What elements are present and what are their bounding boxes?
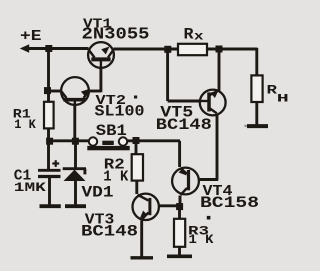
- svg-text:1MK: 1MK: [14, 181, 47, 195]
- svg-text:2N3055: 2N3055: [82, 24, 150, 43]
- svg-text:BC148: BC148: [156, 116, 212, 134]
- svg-text:SL100: SL100: [95, 102, 145, 120]
- svg-text:VD1: VD1: [82, 183, 114, 201]
- svg-text:x: x: [194, 29, 204, 43]
- svg-text:H: H: [277, 93, 289, 105]
- svg-text:R: R: [184, 26, 194, 44]
- svg-text:+E: +E: [20, 28, 42, 45]
- svg-text:SB1: SB1: [96, 122, 127, 140]
- svg-text:1 K: 1 K: [189, 233, 215, 247]
- svg-text:1 K: 1 K: [14, 117, 36, 132]
- svg-text:BC158: BC158: [200, 194, 259, 212]
- svg-text:BC148: BC148: [81, 222, 138, 240]
